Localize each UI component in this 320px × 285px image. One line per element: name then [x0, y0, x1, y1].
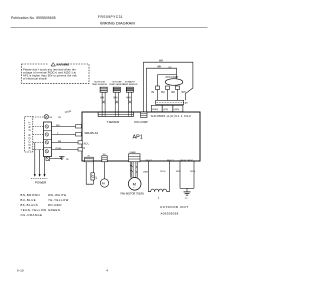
fan motor M	[128, 178, 141, 191]
board plug W(BU)	[151, 105, 162, 111]
svg-text:WH: WH	[157, 65, 161, 68]
sensor RT2 plug	[113, 87, 120, 92]
svg-text:XT: XT	[185, 102, 189, 105]
svg-text:BN: BN	[58, 141, 61, 143]
svg-text:W(BU): W(BU)	[152, 109, 158, 111]
svg-text:BK-BLACK: BK-BLACK	[21, 203, 39, 207]
wire to compressor terminal U	[158, 74, 177, 76]
svg-text:6-10: 6-10	[17, 268, 24, 272]
svg-text:YEGN-YELLOW: YEGN-YELLOW	[21, 208, 47, 212]
svg-text:A06303058: A06303058	[161, 211, 179, 215]
overload protector OVC-COMP ellipse	[165, 79, 183, 86]
svg-text:T-SENSOR: T-SENSOR	[107, 121, 120, 124]
compressor terminal U	[156, 86, 160, 90]
svg-text:U(RD): U(RD)	[174, 109, 180, 111]
svg-text:WH: WH	[182, 92, 186, 94]
svg-text:OG-ORANGE: OG-ORANGE	[21, 213, 43, 217]
svg-text:RD: RD	[172, 92, 176, 94]
svg-text:18YE: 18YE	[176, 171, 182, 173]
svg-text:N(1): N(1)	[56, 125, 61, 127]
warning box	[22, 64, 89, 84]
svg-text:FAN MOTOR 700(R): FAN MOTOR 700(R)	[121, 193, 144, 196]
svg-text:GRJW86-A(C)V1.1 D12: GRJW86-A(C)V1.1 D12	[151, 114, 191, 118]
wires XT to board plugs	[158, 104, 178, 107]
reactor wires	[149, 161, 151, 192]
compressor terminal W	[176, 86, 180, 90]
compressor lead wires	[158, 90, 178, 101]
svg-text:WRJ35-A2: WRJ35-A2	[85, 131, 99, 135]
capacitor C2 symbol	[184, 192, 191, 195]
svg-text:BN-BROWN: BN-BROWN	[21, 193, 41, 197]
compressor terminal board XT	[156, 100, 184, 104]
svg-text:OVC-COMP: OVC-COMP	[134, 121, 148, 124]
sensor RT1 plug	[100, 87, 133, 92]
svg-text:INDC1: INDC1	[146, 160, 153, 162]
ground screw below terminal block	[46, 157, 50, 161]
T-SENSOR connector	[98, 112, 133, 116]
screw symbols in block cells	[45, 125, 48, 153]
svg-text:YE-YELLOW: YE-YELLOW	[48, 198, 69, 202]
svg-text:INDOOR UNIT: INDOOR UNIT	[27, 121, 31, 151]
terminal block XT1	[44, 122, 52, 157]
svg-text:Publication No. 5995509605: Publication No. 5995509605	[11, 16, 56, 20]
FS switch circle	[100, 179, 108, 187]
4V valve coil wires	[86, 162, 93, 184]
compressor lead labels	[151, 92, 186, 94]
svg-text:WH: WH	[100, 97, 104, 100]
wire N to board	[52, 134, 83, 136]
svg-text:CAP-E1 CAP-E2: CAP-E1 CAP-E2	[180, 159, 193, 162]
sensor wires	[102, 92, 131, 112]
svg-text:N: N	[84, 147, 86, 150]
sensor RT3 plug	[126, 87, 133, 92]
svg-text:WH: WH	[127, 97, 131, 100]
svg-text:POWER: POWER	[35, 180, 47, 184]
svg-text:WH: WH	[113, 97, 117, 100]
svg-text:TEMP SENSOR: TEMP SENSOR	[122, 84, 138, 86]
fan motor wire bundle	[130, 162, 137, 178]
ground symbol	[59, 156, 65, 159]
svg-text:of electrical shock!: of electrical shock!	[23, 76, 47, 80]
dashed wires indoor to terminal block	[33, 127, 44, 150]
wire N2	[52, 148, 83, 150]
svg-text:OUTDOOR UNIT: OUTDOOR UNIT	[160, 205, 189, 209]
svg-text:FRS09PYC31: FRS09PYC31	[98, 15, 123, 19]
FS wire	[104, 162, 106, 179]
svg-text:WH: WH	[159, 59, 163, 62]
svg-text:13OG: 13OG	[160, 171, 166, 173]
compressor terminal V	[166, 86, 170, 90]
power supply wires	[35, 142, 45, 174]
board plug V(YE)	[162, 105, 173, 111]
sensor RT1 label	[92, 81, 138, 87]
warning body text	[23, 68, 77, 81]
svg-text:INDC2: INDC2	[167, 160, 174, 162]
svg-text:BU-BLUE: BU-BLUE	[21, 198, 37, 202]
svg-text:YE: YE	[151, 92, 155, 94]
svg-text:AC-L: AC-L	[84, 143, 90, 146]
svg-text:BU: BU	[161, 92, 165, 94]
OVC-COMP connector on board	[141, 112, 148, 118]
svg-text:WIRING DIAGRAM: WIRING DIAGRAM	[100, 21, 135, 26]
indoor unit dashed box	[25, 117, 33, 153]
svg-text:YEGN: YEGN	[55, 148, 62, 150]
wire WH from OVC-COMP (outer)	[144, 62, 193, 112]
svg-text:OVC-COMP: OVC-COMP	[166, 77, 179, 79]
svg-text:WARNING: WARNING	[56, 62, 69, 66]
svg-text:WH-WHITE: WH-WHITE	[48, 193, 67, 197]
reactor L coil	[151, 189, 167, 192]
svg-text:18YE: 18YE	[190, 171, 196, 173]
svg-text:FA: FA	[102, 181, 105, 185]
svg-text:TEMP SENSOR: TEMP SENSOR	[92, 84, 108, 86]
header rule	[11, 26, 208, 28]
svg-text:GREEN: GREEN	[48, 208, 60, 212]
wire L1 to board	[52, 126, 83, 128]
sensor wire labels	[100, 97, 131, 100]
legend of wire colours	[21, 193, 69, 217]
svg-text:AP1: AP1	[133, 135, 143, 141]
board plug U(RD)	[173, 105, 183, 111]
capacitor wires	[179, 161, 181, 188]
earth screw above terminal block	[33, 116, 44, 118]
4V valve coil	[91, 173, 94, 180]
svg-text:V(YE): V(YE)	[163, 109, 168, 111]
wire WH from OVC-COMP (inner)	[147, 68, 177, 112]
ground wire	[50, 156, 62, 159]
svg-text:RD-RED: RD-RED	[48, 203, 62, 207]
wire AC-L	[52, 141, 83, 143]
svg-text:12BN: 12BN	[143, 171, 149, 173]
svg-text:~: ~	[133, 186, 135, 190]
main board AP1	[82, 112, 200, 161]
warning triangle icon	[51, 63, 55, 66]
